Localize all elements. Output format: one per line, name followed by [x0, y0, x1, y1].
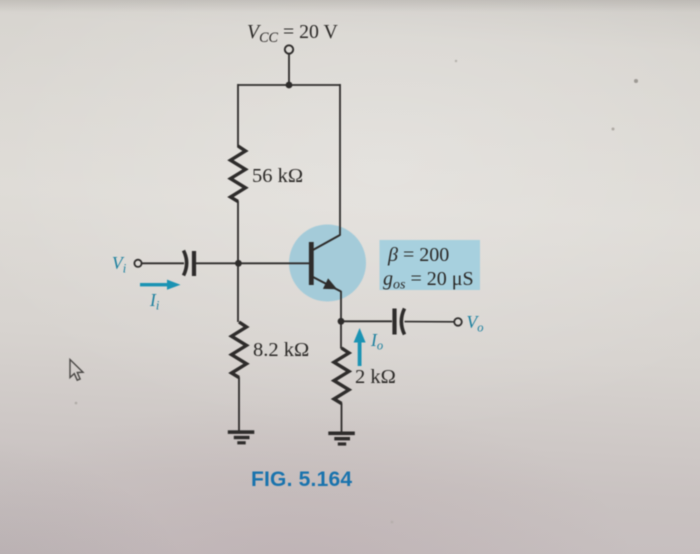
wire emitter vertical: [340, 291, 342, 349]
svg-text:Vi: Vi: [112, 253, 127, 276]
wire Vi to C1: [142, 262, 184, 264]
svg-text:Ii: Ii: [149, 290, 160, 313]
node emitter output junction: [338, 318, 345, 325]
capacitor C1 straight plate: [192, 251, 196, 276]
Vcc terminal: [285, 45, 293, 53]
wire Vcc terminal to top rail: [288, 54, 290, 85]
wire collector vertical: [339, 84, 341, 236]
resistor R3 2 kOhm zigzag: [334, 348, 349, 404]
wire top rail to R1: [237, 84, 239, 147]
capacitor C1 curved plate: [184, 251, 187, 276]
wire C1 to base: [196, 262, 310, 264]
transistor Q1 emitter lead: [312, 277, 341, 292]
arrow Ii: [140, 280, 181, 290]
svg-text:2 kΩ: 2 kΩ: [355, 366, 396, 388]
output terminal Vo: [454, 318, 462, 326]
wire C2 to Vo terminal: [405, 321, 455, 323]
node junction top rail: [286, 82, 293, 89]
arrow Io: [354, 328, 366, 366]
wire R2 to ground: [238, 377, 240, 431]
transistor highlight circle: [289, 225, 366, 302]
svg-text:Io: Io: [370, 330, 383, 353]
resistor R1 56 kOhm zigzag: [231, 146, 246, 202]
transistor Q1 base bar: [309, 242, 314, 285]
wire emitter node to C2: [341, 320, 392, 322]
info box beta/gos: [380, 240, 481, 290]
ground left: [228, 430, 255, 444]
svg-text:Vo: Vo: [467, 312, 484, 335]
wire R3 to ground: [341, 403, 343, 432]
wire top rail: [238, 84, 340, 86]
capacitor C2 straight plate: [392, 309, 396, 335]
transistor Q1 collector lead: [312, 235, 340, 251]
transistor Q1 emitter arrowhead: [323, 278, 337, 289]
svg-text:FIG. 5.164: FIG. 5.164: [251, 468, 352, 491]
resistor R2 8.2 kOhm zigzag: [232, 322, 247, 378]
dust specks: [634, 79, 638, 83]
input terminal Vi: [134, 260, 141, 267]
ground right: [328, 432, 355, 446]
capacitor C2 curved plate: [401, 309, 404, 335]
svg-text:8.2 kΩ: 8.2 kΩ: [253, 339, 309, 361]
svg-text:56 kΩ: 56 kΩ: [252, 165, 303, 187]
mouse cursor: [70, 360, 83, 381]
svg-text:β = 200: β = 200: [387, 244, 449, 266]
node base-bias junction: [235, 260, 242, 267]
wire R1 to base node: [237, 201, 239, 322]
svg-text:VCC = 20 V: VCC = 20 V: [247, 21, 338, 46]
